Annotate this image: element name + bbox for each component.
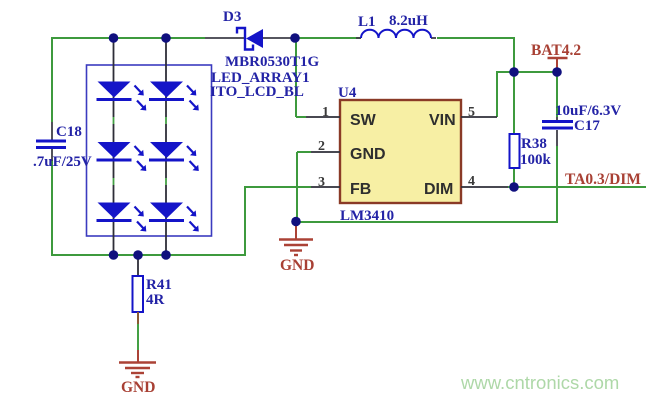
label U4 [338,85,357,101]
wire: C17 branch upper green [556,72,558,117]
junction node: LED col2 top [161,33,171,43]
pin 3 FB [311,175,371,198]
resistor R38 [510,134,520,168]
label MBR0530T1G [225,54,320,70]
LED array box [87,65,212,236]
label 4R [146,292,165,308]
svg-text:8.2uH: 8.2uH [389,13,428,29]
junction node: VIN [509,67,519,77]
wire: left rail upper [51,37,53,122]
resistor R41 [133,255,144,312]
LED D (array row 3 col 2) [149,203,199,232]
svg-text:L1: L1 [358,14,376,30]
wire: DIM net to right edge [508,186,646,188]
svg-text:5: 5 [468,105,475,120]
pin 5 VIN [429,105,497,129]
wire: top rail diode to inductor [292,37,361,39]
watermark [460,372,619,393]
pin 1 SW [306,105,377,129]
label .7uF/25V [33,154,92,170]
capacitor C17 [542,117,573,146]
wire: R41 to ground stem [137,312,139,362]
svg-text:10uF/6.3V: 10uF/6.3V [555,103,621,119]
wire: left rail lower [51,160,53,256]
svg-text:R41: R41 [146,277,172,293]
pin 2 GND [311,139,386,163]
LED D (array row 3 col 1) [97,203,147,232]
svg-text:FB: FB [350,181,371,198]
power port BAT4.2 [531,42,581,71]
pin 4 DIM [424,174,508,198]
wire: SW elbow green [296,116,306,118]
label C17 [574,118,600,134]
label R38 [521,136,547,152]
wire: right drop from top rail to VIN node [513,37,515,72]
wire: top rail inductor to right corner [437,37,514,39]
label LED_ARRAY1 [211,70,310,86]
ground GND (bottom left) [119,363,156,397]
svg-text:4R: 4R [146,292,165,308]
junction node: diode output [290,33,300,43]
label D3 [223,9,241,25]
wire: C17 branch lower green down [556,146,558,222]
label C18 [56,124,82,140]
svg-text:100k: 100k [520,152,552,168]
inductor L1 [356,30,436,38]
wire: LED column 1 [113,38,115,255]
net label TA0.3/DIM [565,171,641,188]
svg-text:LM3410: LM3410 [340,208,394,224]
label L1 [358,14,376,30]
label R41 [146,277,172,293]
wire: VIN node horizontal to BAT node [496,71,558,73]
LED D (array row 2 col 2) [149,142,199,171]
LED D (array row 2 col 1) [97,142,147,171]
wire: LED column 2 [165,38,167,255]
svg-text:C17: C17 [574,118,600,134]
svg-text:4: 4 [468,174,475,189]
wire: VIN riser [496,72,498,117]
svg-text:SW: SW [350,112,377,129]
svg-text:TA0.3/DIM: TA0.3/DIM [565,171,641,188]
svg-text:ITO_LCD_BL: ITO_LCD_BL [210,84,304,100]
svg-text:GND: GND [280,257,314,274]
wire: FB horizontal green [244,186,311,188]
svg-text:3: 3 [318,175,325,190]
label ITO_LCD_BL [210,84,304,100]
label LM3410 [340,208,394,224]
svg-text:www.cntronics.com: www.cntronics.com [460,372,619,393]
wire: ground return horizontal [296,221,558,223]
junction node: LED col1 top [109,33,119,43]
svg-text:GND: GND [121,379,155,396]
wire: GND pin riser down to ground node [296,152,298,221]
LED D (array row 1 col 1) [97,82,147,111]
label 8.2uH [389,13,428,29]
svg-text:R38: R38 [521,136,547,152]
wire: GND pin elbow green [297,151,311,153]
svg-text:DIM: DIM [424,181,453,198]
ground GND (middle) [279,240,314,275]
wire: top rail left segment [52,37,205,39]
junction node: LED col1 bottom [109,250,119,260]
LED D (array row 1 col 2) [149,82,199,111]
junction node: BAT [552,67,562,77]
junction node: LED col2 bottom [161,250,171,260]
label 100k [520,152,552,168]
svg-text:BAT4.2: BAT4.2 [531,42,581,59]
op IC U4 box [340,100,461,203]
capacitor C18 [36,122,66,161]
svg-text:1: 1 [322,105,329,120]
junction node: ground [291,217,301,227]
junction node: DIM [509,182,519,192]
svg-text:GND: GND [350,146,386,163]
svg-text:VIN: VIN [429,112,456,129]
junction node: R41 top [133,250,143,260]
svg-text:2: 2 [318,139,325,154]
wire: FB riser [244,187,246,256]
svg-text:D3: D3 [223,9,241,25]
wire: mid ground stem [295,222,297,239]
svg-text:.7uF/25V: .7uF/25V [33,154,92,170]
wire: R38 lower branch [513,168,515,187]
svg-text:C18: C18 [56,124,82,140]
label 10uF/6.3V [555,103,621,119]
wire: SW riser from top node [295,38,297,117]
svg-text:U4: U4 [338,85,357,101]
wire: R38 upper branch [513,72,515,134]
svg-text:MBR0530T1G: MBR0530T1G [225,54,320,70]
diode D3 [205,28,292,50]
wire: bottom rail [51,254,245,256]
